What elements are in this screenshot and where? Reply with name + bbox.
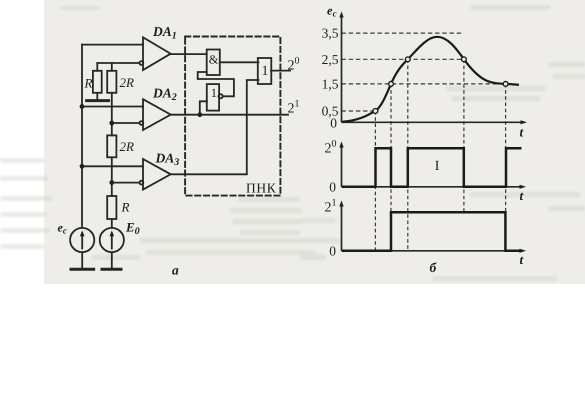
op-amp DA3 [143, 159, 171, 190]
gridline 3,5 dashed [342, 32, 465, 34]
axis t top graph [342, 121, 524, 123]
resistor R (top, to ground) [93, 71, 102, 93]
ground (under E0) [102, 268, 121, 271]
waveform 2^1 [342, 212, 522, 251]
node DA3 + junction [80, 164, 85, 169]
axis 2^1 vertical [341, 204, 343, 251]
svg-text:0: 0 [329, 179, 336, 194]
op-amp DA2 [143, 99, 171, 130]
marker circle at t2 [389, 82, 394, 87]
wire DA2 - input line [112, 122, 140, 124]
logic gate NOT (1) [207, 84, 219, 111]
svg-text:t: t [520, 188, 524, 203]
marker circle at t1 [373, 109, 378, 114]
wire ladder segment 2R to DA2 - node [111, 93, 113, 136]
box PNK dashed boundary [185, 37, 280, 196]
logic gate AND (&) [207, 50, 220, 76]
wire ladder segment to DA3 - node [111, 157, 113, 196]
svg-text:t: t [520, 125, 524, 140]
wire R to E0 [111, 219, 113, 227]
source E0 arrow [111, 234, 113, 249]
wire rail to DA3 + input [82, 165, 143, 167]
svg-text:2,5: 2,5 [322, 52, 339, 67]
wire DA3 output to OR second input [171, 80, 259, 174]
node NOT input junction on 2^1 line [197, 112, 202, 117]
resistor 2R (middle) [107, 135, 116, 157]
svg-text:&: & [209, 53, 219, 67]
wire DA1 output to AND gate [171, 53, 207, 55]
svg-text:2R: 2R [120, 139, 135, 154]
axis e_c vertical [341, 15, 343, 123]
wire DA2 output line to 2^1 [171, 114, 288, 116]
svg-text:3,5: 3,5 [322, 26, 339, 41]
node DA2 - tap [109, 121, 114, 126]
wire AND output to OR gate [220, 61, 259, 63]
pin DA2 inverting circle [140, 121, 144, 125]
wire E0 to ground [111, 253, 113, 268]
marker circle at t5 [503, 82, 508, 87]
svg-text:0: 0 [329, 243, 336, 258]
svg-text:1: 1 [262, 64, 269, 79]
node DA3 - tap [109, 180, 114, 185]
axis t middle graph [342, 186, 523, 188]
logic gate OR (1) [258, 58, 272, 84]
wire 2R top stub [111, 63, 113, 71]
svg-text:0: 0 [330, 116, 337, 131]
resistor R (bottom, to E0) [107, 196, 116, 219]
wire rail to DA1 + input [82, 44, 143, 46]
dashed time line t3 [407, 59, 409, 251]
svg-text:1: 1 [211, 86, 217, 100]
svg-text:R: R [121, 199, 130, 214]
waveform 2^0 [342, 148, 522, 187]
wire e_c to ground [81, 253, 83, 268]
axis t bottom graph [342, 250, 523, 252]
pin NOT output inversion circle [219, 94, 223, 98]
wire NOT input from DA2 line [200, 101, 207, 114]
dashed time line t5 [505, 84, 507, 251]
dashed time line t1 [374, 111, 376, 251]
svg-text:2R: 2R [120, 75, 135, 90]
wire R bottom stub [96, 93, 98, 100]
svg-text:t: t [520, 252, 524, 267]
wire e_c rail vertical [81, 45, 83, 228]
svg-text:R: R [84, 76, 93, 91]
wire AND second input from NOT output [198, 72, 234, 96]
pin DA3 inverting circle [140, 181, 144, 185]
node DA2 + junction [80, 104, 85, 109]
wire DA3 - input line [112, 182, 140, 184]
wire DA1 - input line [97, 62, 139, 64]
resistor 2R (top) [107, 71, 116, 93]
marker circle at t3 [405, 57, 410, 62]
svg-text:I: I [435, 159, 440, 174]
axis 2^0 vertical [341, 145, 343, 187]
wire OR output to 2^0 [271, 70, 290, 72]
dashed time line t4 [463, 59, 465, 212]
svg-text:а: а [172, 263, 179, 278]
pin DA1 inverting circle [140, 61, 144, 65]
marker circle at t4 [462, 57, 467, 62]
gridline 1,5 dashed [342, 83, 506, 85]
dashed time line t2 [390, 84, 392, 251]
wire rail to DA2 + input [82, 106, 143, 108]
ground (under e_c) [71, 268, 94, 271]
source e_c circle [70, 228, 94, 252]
gridline 2,5 dashed [342, 58, 464, 60]
op-amp DA1 [143, 37, 171, 70]
source e_c arrow [81, 234, 83, 249]
curve e_c(t) [342, 37, 519, 122]
ground (under R) [87, 99, 109, 102]
svg-text:ПНК: ПНК [246, 181, 277, 196]
svg-text:1,5: 1,5 [322, 76, 339, 91]
source E0 circle [100, 228, 124, 252]
wire R top stub [96, 63, 98, 71]
gridline 0,5 dashed [342, 110, 376, 112]
